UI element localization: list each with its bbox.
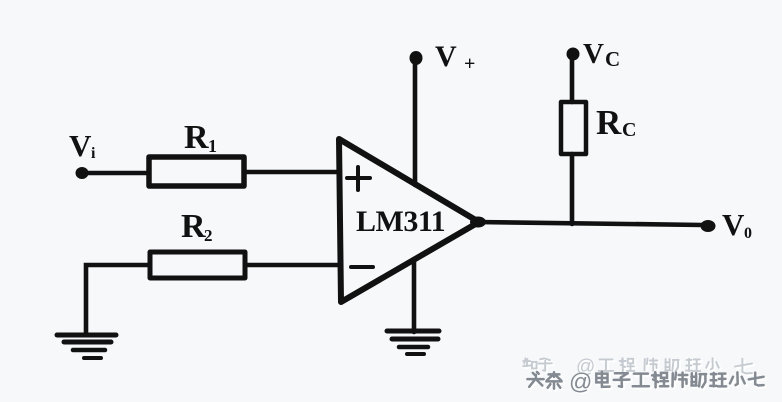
- svg-text:1: 1: [208, 136, 217, 156]
- svg-text:+: +: [464, 53, 475, 75]
- label Rc: [596, 103, 636, 142]
- label V+: [435, 40, 475, 75]
- wire Vc to Rc: [570, 58, 575, 102]
- svg-text:V: V: [583, 38, 604, 70]
- svg-text:2: 2: [204, 226, 213, 245]
- svg-text:V: V: [435, 40, 457, 73]
- label R2: [181, 208, 213, 245]
- svg-text:C: C: [605, 47, 620, 71]
- resistor R1: [149, 157, 244, 186]
- node V+ terminal dot: [410, 51, 423, 65]
- wire V+ to op-amp top: [413, 61, 418, 185]
- wire op-amp bottom to ground: [412, 259, 417, 332]
- svg-text:C: C: [622, 119, 636, 141]
- wire R1 to op-amp + input: [246, 170, 338, 175]
- wire Rc to output node: [570, 154, 575, 224]
- op-amp + input marker: [347, 167, 370, 190]
- resistor R2: [150, 252, 245, 278]
- label Vo: [722, 207, 752, 242]
- node Vc terminal dot: [567, 48, 580, 61]
- svg-text:R: R: [184, 119, 209, 156]
- op-amp - input marker: [351, 265, 373, 269]
- svg-text:LM311: LM311: [356, 205, 445, 238]
- op-amp U1 LM311 triangle: [339, 139, 479, 302]
- wire R2 to op-amp - input: [247, 263, 338, 268]
- svg-text:@: @: [569, 368, 592, 394]
- svg-text:R: R: [596, 103, 622, 142]
- resistor Rc: [561, 102, 586, 154]
- watermark line 1 (知乎 @工程师助理小七): [523, 356, 753, 379]
- label Vc: [583, 38, 620, 71]
- watermark line 2 (头条 @电子工程师助理小七): [527, 368, 765, 396]
- label LM311: [356, 205, 445, 238]
- wire op-amp output to Vo: [470, 217, 703, 228]
- svg-text:0: 0: [744, 225, 752, 242]
- node Vo terminal dot: [701, 220, 716, 232]
- svg-text:R: R: [181, 208, 206, 245]
- node Vi terminal dot: [76, 167, 89, 179]
- label Vi: [69, 128, 96, 163]
- ground (center, below op-amp): [387, 331, 439, 354]
- svg-text:i: i: [91, 145, 96, 162]
- svg-text:V: V: [69, 128, 92, 163]
- wire R2 left to ground: [86, 265, 150, 334]
- ground (left, below R2): [57, 335, 116, 358]
- svg-text:V: V: [722, 207, 745, 242]
- label R1: [184, 119, 217, 156]
- wire Vi to R1: [86, 171, 149, 176]
